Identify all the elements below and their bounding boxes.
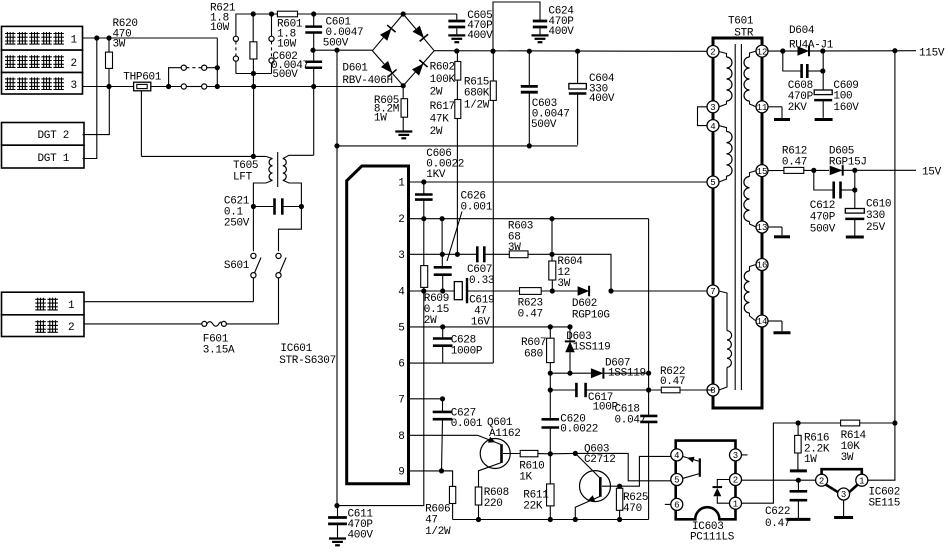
label R602 value bbox=[430, 62, 456, 99]
label D601 bbox=[342, 62, 392, 87]
svg-text:1/2W: 1/2W bbox=[464, 100, 490, 112]
label C605 value bbox=[467, 10, 493, 42]
node pin5 D603 corner bbox=[567, 324, 572, 329]
wire R622 to T601 pin8 bbox=[680, 389, 707, 391]
node pin9 C627 junction bbox=[439, 468, 444, 473]
capacitor C626 bbox=[434, 254, 452, 291]
T601 winding pin16-14 bbox=[744, 265, 756, 322]
svg-text:5: 5 bbox=[674, 476, 679, 486]
svg-text:4: 4 bbox=[398, 287, 405, 299]
capacitor C609 electrolytic bbox=[814, 51, 832, 118]
node hot-return riser top bbox=[334, 48, 339, 53]
svg-text:0.0022: 0.0022 bbox=[560, 424, 598, 436]
svg-text:1000P: 1000P bbox=[451, 346, 483, 358]
node pin1 junction bbox=[421, 179, 426, 184]
svg-text:3: 3 bbox=[710, 103, 715, 113]
IC603 pin 2 bbox=[730, 474, 742, 486]
label C603 value bbox=[531, 98, 570, 131]
bridge diode bottom-left bbox=[381, 61, 392, 73]
resistor R602 bbox=[455, 51, 461, 80]
node bridge bottom bbox=[401, 83, 406, 88]
T601 pin 14 bbox=[756, 315, 768, 327]
label R609 value bbox=[424, 293, 449, 327]
label C619 value bbox=[469, 295, 494, 329]
svg-text:2W: 2W bbox=[424, 315, 437, 327]
resistor R612 bbox=[784, 167, 804, 173]
resistor R623 bbox=[520, 288, 542, 295]
ground pin11 bbox=[774, 118, 790, 121]
wire feedback node row bbox=[798, 422, 841, 424]
resistor R608 bbox=[475, 487, 482, 520]
svg-text:100K: 100K bbox=[430, 74, 456, 86]
svg-text:7: 7 bbox=[710, 287, 715, 297]
svg-text:D601: D601 bbox=[342, 62, 368, 74]
IC603 pin 1 bbox=[730, 497, 742, 509]
svg-text:PC111LS: PC111LS bbox=[690, 532, 735, 544]
T601 pin 12 bbox=[756, 45, 768, 57]
svg-text:1: 1 bbox=[733, 499, 738, 509]
svg-text:500V: 500V bbox=[272, 69, 298, 81]
wire T601 pin11 ground bbox=[768, 107, 782, 118]
wire C621 right to S601 bbox=[279, 207, 302, 252]
label IC602 bbox=[869, 487, 901, 510]
svg-text:15: 15 bbox=[757, 167, 768, 177]
IC603 phototransistor bbox=[683, 457, 700, 479]
node R607 bottom bbox=[548, 371, 553, 376]
svg-text:6: 6 bbox=[674, 501, 679, 511]
svg-text:STR-S6307: STR-S6307 bbox=[279, 355, 336, 367]
svg-text:500V: 500V bbox=[531, 119, 557, 131]
label R605 value bbox=[374, 95, 399, 124]
resistor R617 bbox=[455, 80, 461, 254]
node pin2 C626 junction bbox=[440, 216, 445, 221]
label R610 value bbox=[519, 461, 544, 484]
svg-text:0.47: 0.47 bbox=[518, 309, 543, 321]
connector box AC line 2 bbox=[2, 315, 85, 337]
svg-text:8: 8 bbox=[710, 386, 715, 396]
label R616 value bbox=[804, 433, 830, 466]
label Q601 bbox=[487, 417, 521, 440]
ground C605 bbox=[448, 34, 465, 36]
node pin3 C626 junction bbox=[440, 252, 445, 257]
IC603 pin 3 bbox=[730, 449, 742, 461]
wire T601 pin14 ground bbox=[768, 321, 782, 331]
wire line top y=14 bbox=[236, 14, 457, 36]
capacitor C601 bbox=[305, 14, 322, 50]
label R612 value bbox=[782, 146, 807, 169]
label R611 value bbox=[523, 490, 549, 513]
label R617 value bbox=[430, 101, 455, 138]
T601 pin 5 bbox=[707, 176, 719, 188]
svg-text:250V: 250V bbox=[224, 218, 250, 230]
label C612 value bbox=[810, 200, 836, 236]
svg-text:10W: 10W bbox=[277, 38, 297, 50]
label C601 value bbox=[323, 17, 364, 50]
label C627 value bbox=[451, 408, 483, 431]
transistor Q601 bbox=[478, 435, 521, 487]
wire 15V rail bbox=[843, 169, 916, 171]
node pin3 R604 junction bbox=[549, 252, 554, 257]
ground pin13 bbox=[774, 235, 790, 238]
IC603 pin 4 bbox=[671, 449, 683, 461]
capacitor C606 bbox=[415, 182, 433, 219]
node C617 R622 junction bbox=[646, 387, 651, 392]
node C602 bottom bbox=[311, 84, 316, 89]
capacitor C617 bbox=[578, 383, 585, 397]
diode D604 bbox=[798, 46, 810, 56]
T601 pin 11 bbox=[756, 101, 768, 113]
bridge rectifier D601 outline bbox=[372, 14, 434, 86]
wire IC601 pin2 row bbox=[409, 218, 649, 220]
svg-text:3W: 3W bbox=[841, 452, 854, 464]
wire IC601 pin1 to T601 pin5 bbox=[409, 181, 708, 183]
node pin7 C627 junction bbox=[440, 396, 445, 401]
node DGT1 riser junction bbox=[94, 35, 99, 40]
node D602 cathode bbox=[608, 288, 613, 293]
svg-text:DGT 1: DGT 1 bbox=[38, 153, 70, 165]
T601 pin 7 bbox=[707, 285, 719, 297]
IC602 pin 1 bbox=[856, 474, 868, 486]
fuse F601 bbox=[202, 321, 227, 326]
svg-text:0.001: 0.001 bbox=[451, 418, 483, 430]
node Q603 base bbox=[573, 451, 578, 456]
connector box AC line 1 bbox=[2, 292, 85, 315]
node R620 top junction bbox=[106, 35, 111, 40]
svg-text:C622: C622 bbox=[765, 506, 790, 518]
label R615 value bbox=[464, 77, 490, 112]
svg-text:470P: 470P bbox=[810, 212, 836, 224]
svg-text:C612: C612 bbox=[810, 200, 835, 212]
svg-text:2W: 2W bbox=[430, 126, 443, 138]
wire IC601 pin6 row bbox=[409, 362, 494, 364]
svg-text:1K: 1K bbox=[519, 472, 532, 484]
resistor R607 bbox=[547, 327, 555, 390]
diode D607 bbox=[591, 368, 604, 378]
svg-text:0.47: 0.47 bbox=[765, 518, 790, 530]
resistor R611 bbox=[547, 454, 555, 520]
wire relay to node B bbox=[207, 86, 254, 88]
svg-text:LFT: LFT bbox=[233, 171, 253, 183]
node pin4 C626 junction bbox=[440, 288, 445, 293]
svg-text:1KV: 1KV bbox=[426, 169, 446, 181]
capacitor C603 bbox=[521, 51, 538, 146]
node T605 left top bbox=[251, 154, 256, 159]
label C624 value bbox=[548, 6, 574, 39]
node surge block bottom bbox=[251, 84, 256, 89]
T601 winding pin15-13 bbox=[744, 171, 756, 227]
diode D603 bbox=[565, 327, 576, 373]
connector box DGT 1 bbox=[2, 145, 85, 168]
wire collector to IC603 pin4 bbox=[620, 456, 672, 486]
svg-text:11: 11 bbox=[757, 103, 768, 113]
switch S601 pole 1 bbox=[251, 253, 261, 301]
T601 pin 16 bbox=[756, 259, 768, 271]
diode D605 bbox=[830, 166, 843, 176]
svg-text:330: 330 bbox=[866, 210, 885, 222]
switch contact left (dashed) bbox=[233, 36, 238, 73]
transformer T601 outline bbox=[713, 38, 762, 408]
relay contact upper (dashed) bbox=[169, 38, 218, 86]
node relay upper right bbox=[215, 65, 220, 70]
svg-text:400V: 400V bbox=[548, 26, 574, 38]
node D607 cathode bbox=[646, 371, 651, 376]
diode D602 bbox=[578, 286, 590, 296]
capacitor C628 bbox=[433, 327, 453, 363]
label T605 bbox=[233, 160, 258, 183]
capacitor C619 electrolytic bbox=[454, 278, 467, 303]
bridge diode top-right bbox=[413, 26, 424, 38]
IC602 SE115 outline bbox=[822, 469, 862, 492]
label C617 value bbox=[588, 392, 619, 414]
wire THP601 to relay contacts bbox=[151, 86, 184, 88]
svg-text:680: 680 bbox=[524, 349, 543, 361]
ground R616 bbox=[790, 469, 807, 472]
label C609 value bbox=[833, 80, 859, 114]
svg-text:3.15A: 3.15A bbox=[203, 345, 235, 357]
capacitor C612 bbox=[814, 170, 855, 198]
T601 winding pin4-5 bbox=[719, 126, 732, 182]
wire IC602 pin3 to ground bbox=[843, 500, 845, 516]
svg-text:R602: R602 bbox=[430, 62, 455, 74]
T601 pin 3 bbox=[707, 101, 719, 113]
svg-text:1SS119: 1SS119 bbox=[573, 342, 611, 354]
ground pin14 bbox=[774, 331, 791, 334]
svg-text:14: 14 bbox=[757, 317, 768, 327]
svg-text:THP601: THP601 bbox=[123, 72, 162, 84]
node D604 cathode bbox=[820, 48, 825, 53]
node D603 bottom bbox=[567, 371, 572, 376]
label R622 value bbox=[660, 366, 685, 388]
IC602 pin 2 bbox=[816, 474, 828, 486]
resistor R605 bbox=[401, 86, 408, 132]
label C611 value bbox=[348, 509, 374, 542]
svg-text:RBV-406H: RBV-406H bbox=[342, 75, 392, 87]
node pin5 C628 junction bbox=[440, 324, 445, 329]
node R610 junction bbox=[548, 451, 553, 456]
label D605 value bbox=[829, 146, 867, 169]
svg-text:SE115: SE115 bbox=[869, 498, 901, 510]
node pin5 R607 junction bbox=[548, 324, 553, 329]
label R620 value bbox=[113, 18, 138, 50]
label C610 value bbox=[866, 199, 891, 235]
wire D607 to 648 riser bbox=[605, 372, 649, 374]
wire 115V feedback riser bbox=[894, 51, 896, 423]
svg-text:400V: 400V bbox=[467, 30, 493, 42]
wire IC601 pin7 row bbox=[409, 398, 443, 400]
T601 winding pin2-3 bbox=[719, 52, 732, 107]
wire pin2 net riser bbox=[648, 219, 650, 520]
svg-text:4: 4 bbox=[674, 451, 679, 461]
svg-text:1: 1 bbox=[68, 300, 75, 312]
node Q603 emitter bottom bbox=[573, 517, 578, 522]
node pin2 junction bbox=[421, 216, 426, 221]
transformer T605 left winding bbox=[253, 156, 272, 206]
svg-text:D602: D602 bbox=[572, 298, 597, 310]
node R614 right bbox=[892, 420, 897, 425]
IC603 photodiode LED bbox=[713, 480, 730, 504]
svg-text:DGT 2: DGT 2 bbox=[38, 130, 70, 142]
ground C611 bbox=[329, 537, 346, 539]
resistor R616 bbox=[795, 423, 802, 470]
svg-text:RGP10G: RGP10G bbox=[572, 310, 610, 322]
capacitor C602 bbox=[305, 50, 322, 86]
label IC601 bbox=[279, 343, 336, 367]
svg-text:2: 2 bbox=[68, 322, 74, 334]
resistor R621 bbox=[250, 14, 257, 74]
svg-text:IC601: IC601 bbox=[280, 343, 312, 355]
wire R614 to riser bbox=[860, 422, 895, 424]
T601 winding pin7-8 bbox=[719, 291, 732, 390]
node C603 top bbox=[527, 49, 532, 54]
label C607 value bbox=[467, 264, 494, 287]
transformer T605 core bbox=[277, 152, 279, 187]
node R625 top bbox=[617, 484, 622, 489]
label R601 value bbox=[277, 18, 303, 50]
svg-text:3: 3 bbox=[733, 451, 738, 461]
svg-text:2: 2 bbox=[710, 48, 715, 58]
svg-text:T605: T605 bbox=[233, 160, 258, 172]
node R616 top bbox=[796, 420, 801, 425]
svg-text:1/2W: 1/2W bbox=[425, 526, 451, 538]
label R608 value bbox=[484, 487, 509, 510]
wire 115V rail bbox=[768, 50, 916, 52]
svg-text:13: 13 bbox=[757, 223, 768, 233]
svg-text:15V: 15V bbox=[922, 167, 942, 179]
capacitor C610 electrolytic bbox=[845, 170, 864, 235]
ground C609 bbox=[815, 118, 833, 121]
svg-text:2: 2 bbox=[733, 476, 738, 486]
label R614 value bbox=[841, 430, 867, 464]
T601 pin 4 bbox=[707, 120, 719, 132]
label C622 value bbox=[765, 506, 790, 530]
label D603 value bbox=[566, 331, 610, 354]
node bridge top bbox=[401, 11, 406, 16]
node C608 right bbox=[820, 68, 825, 73]
label R604 value bbox=[557, 256, 583, 290]
transistor Q603 bbox=[575, 453, 619, 519]
resistor R615 bbox=[490, 51, 496, 363]
wire R610 to node bbox=[538, 453, 550, 455]
wire C617 to R622 bbox=[586, 389, 662, 391]
ground C622 bbox=[786, 518, 810, 521]
wire IC601 pin3 row bbox=[409, 254, 612, 291]
svg-text:47: 47 bbox=[425, 515, 438, 527]
wire DGT2 riser bbox=[83, 87, 110, 135]
capacitor C608 bbox=[783, 51, 823, 78]
svg-text:2: 2 bbox=[819, 476, 824, 486]
wire IC601 pin8 row bbox=[409, 434, 478, 436]
connector box degauss coil 2 bbox=[2, 50, 83, 72]
node C620 top bbox=[548, 387, 553, 392]
svg-text:1W: 1W bbox=[804, 454, 817, 466]
svg-text:25V: 25V bbox=[866, 222, 886, 234]
wire degauss coil1 to relay bbox=[83, 37, 218, 39]
wire C602 to bridge bottom bbox=[314, 86, 404, 88]
IC603 pin6 stub bbox=[665, 503, 671, 505]
wire IC601 pin5 row bbox=[409, 326, 571, 328]
label D602 value bbox=[572, 298, 610, 322]
transformer T601 core bbox=[735, 44, 741, 390]
svg-text:0.33: 0.33 bbox=[469, 275, 494, 287]
label C628 value bbox=[451, 335, 483, 358]
node C601 top bbox=[311, 11, 316, 16]
ground R605 bbox=[395, 130, 412, 132]
label C604 value bbox=[589, 73, 615, 105]
IC603 pin3 stub bbox=[742, 454, 748, 456]
capacitor C604 electrolytic bbox=[569, 51, 587, 145]
svg-text:8: 8 bbox=[398, 431, 404, 443]
svg-text:16V: 16V bbox=[471, 317, 491, 329]
resistor R603 bbox=[509, 251, 528, 258]
ground C624 bbox=[532, 34, 549, 36]
svg-text:160V: 160V bbox=[833, 102, 859, 114]
svg-text:3W: 3W bbox=[508, 242, 521, 254]
label C621 value bbox=[224, 196, 250, 230]
connector box degauss coil 1 bbox=[2, 26, 83, 50]
wire IC603 pin1 to feedback node bbox=[742, 423, 799, 503]
capacitor C627 bbox=[433, 399, 453, 471]
svg-text:3W: 3W bbox=[113, 38, 126, 50]
label R625 value bbox=[623, 492, 648, 515]
node R621 top bbox=[251, 11, 256, 16]
IC603 PC111LS outline bbox=[676, 441, 736, 520]
node R620 bottom bbox=[106, 84, 111, 89]
node pin3 R617 junction bbox=[455, 252, 460, 257]
svg-text:4: 4 bbox=[710, 122, 715, 132]
label R621 value bbox=[210, 2, 236, 34]
node pin4 junction R609 bbox=[421, 288, 426, 293]
node C611 top bbox=[334, 503, 339, 508]
svg-text:3W: 3W bbox=[557, 278, 570, 290]
svg-text:12: 12 bbox=[757, 47, 768, 57]
T601 winding pin12-11 bbox=[744, 51, 756, 107]
capacitor C622 bbox=[790, 480, 808, 518]
capacitor C611 bbox=[328, 506, 347, 538]
svg-text:400V: 400V bbox=[348, 530, 374, 542]
svg-text:R607: R607 bbox=[521, 337, 546, 349]
node C624 branch bbox=[490, 49, 495, 54]
svg-text:S601: S601 bbox=[224, 260, 250, 272]
node R602 top bbox=[454, 48, 459, 53]
wire IC601 pin9 row bbox=[409, 470, 453, 472]
svg-text:1: 1 bbox=[859, 476, 864, 486]
IC603 pin 5 bbox=[671, 474, 683, 486]
svg-text:D604: D604 bbox=[789, 25, 815, 37]
wire T601 pin8 stub bbox=[707, 389, 713, 391]
svg-text:6: 6 bbox=[398, 359, 404, 371]
svg-text:3: 3 bbox=[398, 250, 404, 262]
wire C617 row bbox=[550, 389, 576, 391]
node right contact top bbox=[269, 11, 274, 16]
T601 pin3-4 bracket bbox=[698, 107, 708, 126]
node C612 right bbox=[852, 187, 857, 192]
wire AC1 to S601 bbox=[84, 301, 253, 303]
T601 pin 8 bbox=[707, 384, 719, 396]
svg-text:500V: 500V bbox=[323, 37, 349, 49]
label R607 value bbox=[521, 337, 546, 361]
resistor R601 bbox=[277, 11, 297, 17]
svg-text:RU4A-J1: RU4A-J1 bbox=[789, 40, 834, 52]
node R625 bottom bbox=[617, 517, 622, 522]
wire base node row bbox=[550, 453, 671, 480]
capacitor C618 bbox=[640, 415, 657, 418]
wire hot return y=145 bbox=[337, 50, 578, 146]
svg-text:2: 2 bbox=[71, 58, 77, 70]
wire T601 pin15 to R612 bbox=[768, 170, 784, 172]
node pin2 R604 junction bbox=[549, 216, 554, 221]
node pin4 R604 junction bbox=[550, 288, 555, 293]
resistor R625 bbox=[616, 488, 622, 519]
